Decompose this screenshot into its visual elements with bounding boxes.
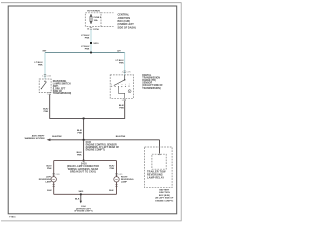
svg-text:BREAKOUT TO C420): BREAKOUT TO C420): [70, 170, 96, 173]
wire BLK right lamp: [116, 182, 118, 194]
svg-text:LAMP: LAMP: [121, 180, 128, 183]
connector ticks at switch: [44, 75, 46, 77]
wire top of lamp loop: [54, 160, 117, 162]
ground arrow: [80, 201, 82, 204]
switch contact: [44, 81, 45, 82]
fuse F5: [90, 15, 92, 24]
TR blade: [114, 80, 125, 86]
svg-text:PNK: PNK: [85, 48, 90, 50]
svg-text:ENGINE COMP'T): ENGINE COMP'T): [155, 200, 173, 202]
svg-text:LAMP RELAY: LAMP RELAY: [147, 176, 164, 179]
TR exit ticks: [124, 99, 126, 101]
wire to BJB relay: [159, 140, 161, 154]
trailer tow relay box: [152, 154, 166, 169]
TR entry stub: [124, 75, 126, 80]
reversing lamps switch box: [39, 79, 51, 93]
wire LT BLU/PNK to TR sensor: [124, 53, 126, 75]
svg-text:F7B16: F7B16: [9, 216, 16, 218]
svg-text:2: 2: [42, 75, 43, 77]
junction on branch: [90, 52, 92, 54]
CJB dashed extension top: [101, 12, 114, 14]
svg-text:BATTERY: BATTERY: [159, 189, 169, 192]
right lamp lower ticks: [115, 185, 117, 187]
wire drop to bus: [83, 118, 85, 139]
reversing lamps switch label: [53, 81, 72, 95]
wire right lamp feed: [116, 161, 118, 177]
svg-text:FUSE 5: FUSE 5: [94, 17, 102, 19]
main BLK/PNK bus: [50, 139, 159, 141]
wire BLK/PNK below TR: [84, 101, 125, 118]
svg-text:(IN LEFT SIDE OF: (IN LEFT SIDE OF: [155, 198, 174, 200]
svg-text:BLK: BLK: [75, 198, 80, 200]
svg-text:BLK/PNK: BLK/PNK: [52, 136, 62, 138]
BJB label: [155, 189, 174, 203]
TR pivot: [124, 79, 126, 81]
splice S310: [90, 42, 92, 44]
wire BLK left lamp: [53, 182, 55, 194]
svg-text:(REAR LAMP CONNECTOR: (REAR LAMP CONNECTOR: [67, 165, 99, 168]
outer page edge: [1, 3, 181, 221]
digital TR sensor box: [110, 75, 133, 98]
svg-text:BOX (BJB): BOX (BJB): [159, 195, 170, 197]
svg-text:ANTI-THEFT: ANTI-THEFT: [32, 134, 45, 137]
wire LT BLU/PNK from fuse: [90, 30, 92, 53]
svg-text:WIRING HARNESS, NEAR: WIRING HARNESS, NEAR: [68, 168, 99, 171]
svg-text:C270A: C270A: [93, 28, 99, 31]
TR internal wire: [118, 87, 124, 99]
CJB name label: [118, 14, 136, 30]
trailer tow relay label: [147, 170, 166, 179]
CJB dashed extension bottom: [101, 25, 114, 27]
svg-text:BLK: BLK: [47, 190, 52, 192]
wire branch bus: [45, 52, 125, 54]
svg-text:PNK: PNK: [85, 37, 90, 39]
switch exit ticks: [49, 93, 51, 95]
TR contacts: [111, 86, 129, 88]
connector ticks TR entry: [124, 71, 126, 73]
wire to reversing lamps switch: [44, 53, 46, 80]
svg-text:TRANSMISSION): TRANSMISSION): [53, 92, 72, 95]
relay stub: [158, 154, 160, 156]
CJB fuse dashed box: [85, 13, 101, 27]
svg-text:PNK: PNK: [119, 62, 124, 64]
svg-text:PNK: PNK: [110, 168, 115, 170]
right reversing lamp: [114, 177, 119, 182]
right lamp connector ticks: [115, 174, 117, 176]
connector C270A ticks: [90, 28, 92, 30]
wire ground bus: [54, 193, 117, 195]
ground G104 label: [74, 205, 93, 212]
svg-text:PNK: PNK: [77, 132, 82, 134]
wire BLK/PNK below switch: [50, 95, 84, 119]
right lamp label: [121, 177, 134, 184]
left lamp lower ticks: [53, 185, 55, 187]
svg-text:HOT IN RUN: HOT IN RUN: [87, 10, 100, 12]
arrow to anti-theft: [47, 139, 51, 142]
svg-text:1: 1: [47, 94, 48, 96]
switch blade: [41, 82, 46, 89]
wire left lamp feed: [53, 161, 55, 177]
svg-text:OF ENGINE COMP'T): OF ENGINE COMP'T): [74, 210, 93, 212]
svg-text:10: 10: [87, 29, 89, 31]
svg-text:10A: 10A: [94, 19, 98, 22]
svg-text:C146: C146: [47, 75, 51, 77]
border frame: [8, 6, 177, 214]
svg-text:PNK: PNK: [38, 64, 43, 66]
svg-text:LAMP: LAMP: [45, 180, 52, 183]
connector C115 label: [86, 142, 120, 152]
svg-text:TRANSMISSION): TRANSMISSION): [142, 87, 161, 90]
svg-text:ENGINE COMP'T): ENGINE COMP'T): [86, 149, 105, 151]
svg-text:PNK: PNK: [44, 111, 49, 113]
svg-text:S310: S310: [93, 43, 99, 45]
left lamp label: [39, 177, 52, 184]
left lamp connector ticks: [53, 174, 55, 176]
svg-text:BLK: BLK: [109, 190, 114, 192]
svg-text:PNK: PNK: [77, 154, 82, 156]
splice S420: [83, 160, 85, 162]
TR sensor label: [142, 74, 163, 90]
svg-text:DIGITAL: DIGITAL: [142, 74, 152, 77]
svg-text:S420: S420: [81, 162, 87, 165]
svg-text:SIDE OF DASH): SIDE OF DASH): [118, 26, 136, 29]
wire BLK to ground: [80, 194, 82, 201]
svg-text:PNK: PNK: [47, 168, 52, 170]
junction on bus: [83, 139, 85, 141]
wire BLK/PNK bus to S420: [83, 140, 85, 161]
svg-text:PNK: PNK: [119, 107, 124, 109]
svg-text:BLK/PNK: BLK/PNK: [116, 136, 126, 138]
svg-text:WARNING SYSTEM: WARNING SYSTEM: [25, 137, 45, 140]
S420 label: [67, 162, 99, 173]
TR position marks: [111, 84, 130, 85]
svg-text:C420: C420: [56, 174, 60, 176]
left reversing lamp: [51, 177, 56, 182]
svg-text:4: 4: [122, 72, 123, 74]
TR circled letter: [128, 90, 131, 93]
svg-text:S401: S401: [79, 190, 85, 193]
battery junction box: [145, 147, 173, 188]
svg-text:TRANSMISSION: TRANSMISSION: [142, 76, 160, 79]
junction at tee: [83, 118, 85, 120]
splice S401: [80, 193, 82, 195]
svg-text:C175: C175: [127, 72, 131, 74]
svg-text:JUNCTION: JUNCTION: [159, 192, 170, 194]
svg-text:RANGE (TR): RANGE (TR): [142, 79, 156, 82]
svg-text:3: 3: [122, 100, 123, 102]
